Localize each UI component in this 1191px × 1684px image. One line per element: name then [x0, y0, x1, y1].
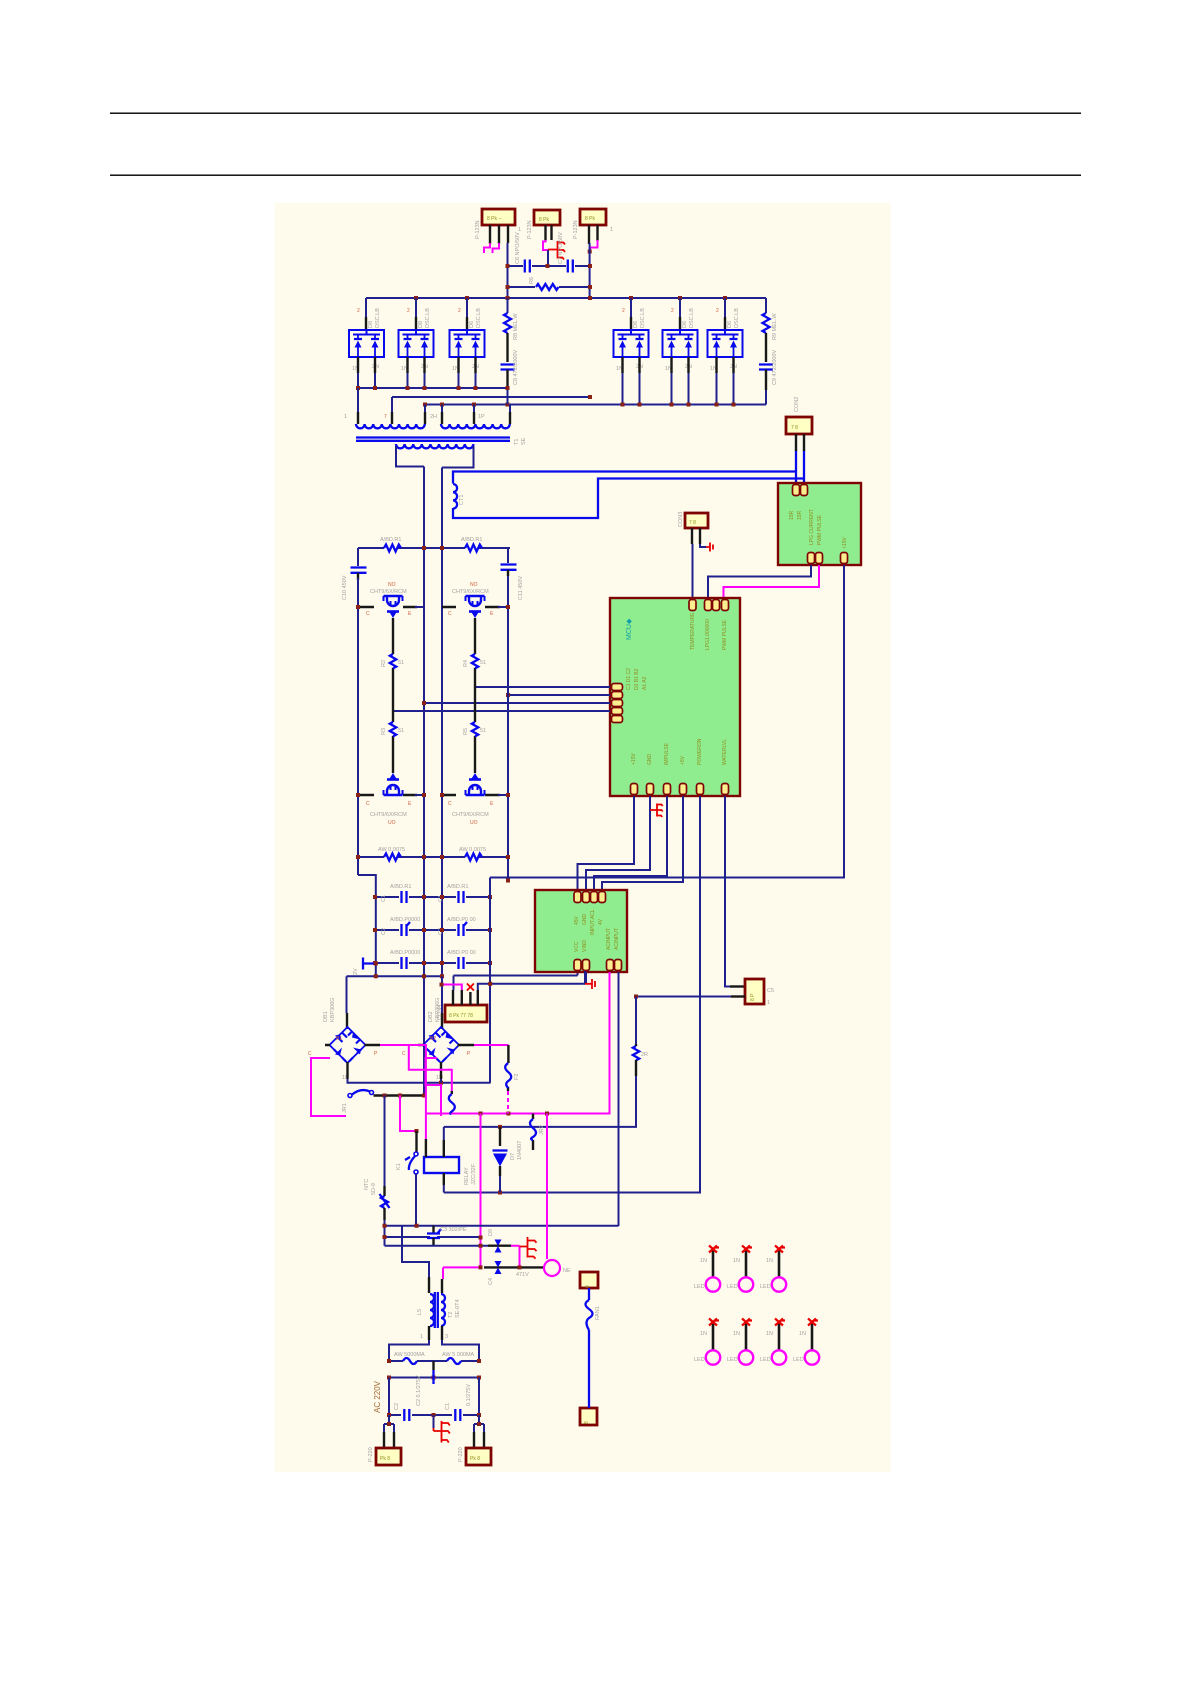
svg-text:A/BD.P0 00: A/BD.P0 00 [447, 950, 476, 956]
svg-text:2: 2 [458, 308, 461, 314]
svg-text:1: 1 [420, 1334, 423, 1340]
CT leads to driver pins [796, 450, 804, 483]
svg-text:4V: 4V [598, 918, 604, 925]
svg-text:CHT9/6X/RCM: CHT9/6X/RCM [452, 812, 489, 818]
svg-text:P-123N: P-123N [475, 220, 481, 239]
wire Q4 row [442, 794, 500, 796]
connector CON2 [786, 397, 812, 434]
svg-text:1: 1 [610, 227, 613, 233]
resistor Rs2 [465, 854, 482, 861]
wire resonant cap row 3 y963 [375, 962, 490, 964]
svg-text:D6: D6 [682, 321, 688, 328]
svg-text:UO: UO [388, 820, 396, 826]
svg-text:C1: C1 [445, 1403, 451, 1410]
connector P3 pins [589, 225, 598, 244]
svg-text:C: C [308, 1051, 312, 1057]
svg-text:L5: L5 [417, 1309, 423, 1315]
bridge rectifier B2 [423, 1027, 459, 1063]
svg-text:1P: 1P [478, 414, 485, 420]
svg-text:8: 8 [584, 1421, 590, 1424]
fuse FA1 [403, 1358, 417, 1364]
left DC rail [358, 548, 376, 976]
fan connector FC1 [580, 1272, 598, 1288]
rectifier D2 [399, 330, 434, 357]
svg-text:2: 2 [407, 308, 410, 314]
svg-text:LED: LED [694, 1284, 705, 1290]
svg-text:R4: R4 [463, 660, 469, 667]
magenta relay switch feed [400, 1096, 417, 1132]
svg-text:1: 1 [344, 414, 347, 420]
current transformer loop (bright blue) [453, 472, 804, 519]
TVS diode Z1 (bowtie) [495, 1240, 502, 1253]
rectifier bottom pins (right group) [623, 357, 734, 373]
svg-text:45V: 45V [574, 915, 580, 925]
svg-text:ACINPUT: ACINPUT [614, 928, 620, 950]
resistor Rs1 [384, 854, 401, 861]
svg-text:CHT9/6X/RCM: CHT9/6X/RCM [370, 812, 407, 818]
header rule 1 [110, 113, 1081, 114]
magenta to earth [511, 1246, 520, 1266]
svg-text:C11 450V: C11 450V [518, 576, 524, 600]
svg-text:TEMPERATURE: TEMPERATURE [690, 612, 696, 650]
B2 pin stubs [418, 1045, 474, 1079]
svg-text:1N: 1N [766, 1258, 773, 1264]
svg-text:C2: C2 [394, 1403, 400, 1410]
relay coil K1 [424, 1157, 459, 1173]
capacitor C7 [568, 260, 573, 273]
connector CON5 [745, 979, 774, 1006]
svg-text:1N4007: 1N4007 [517, 1141, 523, 1160]
svg-text:P-123N: P-123N [573, 220, 579, 239]
rectifier D6 [708, 330, 743, 357]
svg-text:PWM PULSE: PWM PULSE [722, 619, 728, 650]
magenta B1 plus down x425.9 [380, 1045, 426, 1114]
red X no-connect [467, 984, 474, 991]
svg-text:C2: C2 [381, 928, 387, 935]
svg-text:D2 B1 B2: D2 B1 B2 [634, 668, 640, 690]
capacitor Cy (x433) [432, 1226, 434, 1233]
wire relay to y1192 [443, 1185, 445, 1193]
wire row y1237 [385, 1236, 481, 1238]
wire P1 pin3 down [507, 243, 509, 298]
svg-text:C1: C1 [381, 895, 387, 902]
MCU bottom wires staircase to module [578, 796, 635, 890]
capacitor Cx1 [432, 1361, 434, 1370]
svg-text:C: C [366, 611, 370, 617]
svg-text:51: 51 [398, 660, 404, 666]
wire row y1245.7 [385, 1245, 489, 1247]
wire shunt row y857 [358, 856, 508, 858]
wire CON3 pin1 to MCU [692, 544, 694, 598]
wire Q2 row [358, 794, 417, 796]
svg-text:T1: T1 [514, 439, 520, 445]
svg-text:2V: 2V [353, 968, 359, 975]
wire B1 top feed [346, 976, 348, 1013]
power flag (red) at module pin2 [585, 979, 595, 989]
CON3 pins [692, 528, 700, 544]
svg-text:2R: 2R [641, 1052, 648, 1058]
svg-text:C3 302/PE: C3 302/PE [440, 1227, 467, 1233]
svg-text:VCC: VCC [574, 941, 580, 952]
lamp LED1 [706, 1246, 720, 1292]
fuse FA2 [447, 1358, 461, 1364]
switch JR2b (blue squiggle) [451, 1091, 453, 1094]
svg-text:7: 7 [384, 414, 387, 420]
svg-text:MCU◆: MCU◆ [626, 618, 633, 640]
relay switch lead [415, 1131, 417, 1152]
earth symbol (red) mid [520, 1237, 537, 1259]
bridge rectifier B1 [330, 1027, 366, 1063]
svg-text:8 Pk: 8 Pk [539, 217, 550, 223]
transformer T1 primary winding [356, 424, 425, 428]
connector CON3 [678, 512, 708, 528]
earth symbol (red) bottom [433, 1415, 435, 1428]
magenta B2 plus to fuse [474, 1044, 508, 1046]
svg-text:B1: B1 [336, 1036, 342, 1042]
wire X-cap row y1415 [389, 1414, 479, 1416]
capacitor Cr3 [402, 922, 411, 936]
svg-text:C6 NPO/50V: C6 NPO/50V [515, 232, 521, 264]
rectifier bottom pins (left group) [358, 357, 476, 373]
svg-text:C: C [402, 1051, 406, 1057]
svg-text:8 Pk --: 8 Pk -- [487, 216, 502, 222]
svg-text:15R: 15R [789, 510, 795, 520]
B1 pin stubs [325, 1045, 380, 1079]
svg-text:C1 D1 C2: C1 D1 C2 [626, 668, 632, 690]
fuse F2 (blue squiggle) [507, 1045, 510, 1091]
svg-text:INPUT.ACL: INPUT.ACL [590, 909, 596, 935]
svg-text:R8 MEL.W: R8 MEL.W [513, 313, 519, 340]
fuse F1 between [588, 1288, 590, 1408]
transistor Q1 [384, 596, 403, 618]
svg-text:DSC.LB: DSC.LB [734, 308, 740, 328]
svg-text:R2: R2 [381, 660, 387, 667]
svg-text:8 P: 8 P [750, 993, 756, 1001]
lamp LED2 [739, 1246, 753, 1292]
connector CN2 (AC neutral) [458, 1447, 491, 1465]
gate resistor Rg4 [472, 722, 478, 736]
svg-text:8 Pk: 8 Pk [585, 216, 596, 222]
svg-text:1N: 1N [799, 1331, 806, 1337]
svg-text:VIND: VIND [582, 940, 588, 952]
wire row y1267.4 [443, 1266, 481, 1268]
svg-text:AC 220V: AC 220V [373, 1380, 382, 1413]
svg-text:AW 0.0075: AW 0.0075 [378, 847, 405, 853]
svg-text:DSC.LB: DSC.LB [640, 308, 646, 328]
labels rectifiers [352, 308, 740, 372]
svg-text:Pk 8: Pk 8 [470, 1456, 480, 1462]
wire fuse row y1361 [389, 1360, 479, 1362]
wire secondary right leg [442, 446, 474, 976]
MCU U1 [610, 598, 740, 796]
capacitor Cr2 [459, 891, 464, 903]
transformer T1 primary taps [358, 388, 510, 412]
svg-text:P-220: P-220 [368, 1447, 374, 1462]
wire main top bus y298 [366, 297, 766, 299]
lamp LED7 [805, 1319, 819, 1365]
svg-text:2H: 2H [430, 414, 437, 420]
module ACINPUT magenta down [426, 972, 610, 1114]
svg-text:Pk 8: Pk 8 [380, 1456, 390, 1462]
svg-text:POWERON: POWERON [697, 738, 703, 765]
snubber C9 (right) [759, 365, 773, 370]
svg-text:15R: 15R [797, 510, 803, 520]
svg-text:1N: 1N [733, 1258, 740, 1264]
magenta hook B1 [311, 1058, 346, 1116]
svg-text:1N: 1N [700, 1258, 707, 1264]
svg-text:C5: C5 [767, 988, 774, 994]
MCU left wires from gates [475, 686, 610, 688]
connector P2 (2-pin) [527, 210, 560, 239]
side rails down [389, 1378, 479, 1416]
rectifier D5 [663, 330, 698, 357]
magenta row M y1113.5 [426, 1113, 610, 1115]
lamp LED5 [739, 1319, 753, 1365]
svg-text:0.1/275V: 0.1/275V [466, 1384, 472, 1406]
lamp LED6 [772, 1319, 786, 1365]
svg-text:DB2: DB2 [428, 1011, 434, 1022]
CON2 pins [796, 434, 804, 451]
magenta down to TVS x480.5 [480, 1114, 482, 1268]
wire bus C y404.5 [423, 404, 766, 406]
svg-text:JR1: JR1 [342, 1103, 348, 1113]
svg-text:C9 472/2000V: C9 472/2000V [772, 350, 778, 385]
connector P1 pins [490, 225, 508, 244]
svg-text:CT1: CT1 [459, 495, 465, 505]
svg-text:D6: D6 [727, 321, 733, 328]
svg-text:7 8: 7 8 [689, 520, 696, 526]
wire B2 top feed [441, 976, 443, 1013]
wire magenta stubs under P1 [484, 243, 499, 253]
svg-text:D7: D7 [510, 1153, 516, 1160]
svg-text:LED: LED [760, 1284, 771, 1290]
svg-text:+5V: +5V [680, 755, 686, 765]
svg-text:A/BD.R1: A/BD.R1 [390, 884, 411, 890]
svg-text:ACINPUT: ACINPUT [606, 928, 612, 950]
svg-text:7 8: 7 8 [791, 425, 798, 431]
svg-text:C: C [366, 801, 370, 807]
svg-text:D6: D6 [469, 321, 475, 328]
header rule 2 [110, 175, 1081, 176]
svg-text:KBP306G: KBP306G [330, 998, 336, 1022]
svg-text:F2: F2 [514, 1074, 520, 1080]
wire Q3 row [442, 606, 500, 608]
resistor Rd1 [384, 545, 401, 552]
svg-text:8: 8 [585, 1285, 591, 1288]
svg-text:C10 450V: C10 450V [342, 575, 348, 600]
wire resistor row y287 [508, 286, 591, 288]
magenta T2 right pin [442, 1268, 444, 1280]
CT winding [453, 484, 457, 509]
magenta B2 left hook [409, 1045, 452, 1091]
bulk capacitor CB1 [351, 568, 367, 573]
svg-text:GND: GND [582, 914, 588, 926]
svg-text:C8 472/2000V: C8 472/2000V [513, 350, 519, 385]
svg-text:IMPULSE: IMPULSE [664, 742, 670, 765]
svg-text:R5: R5 [463, 728, 469, 735]
magenta hook B2 [426, 1058, 442, 1116]
wire module pin2 down [585, 972, 587, 984]
wire row P to module pin1 [454, 972, 578, 990]
svg-text:R9 MEL.W: R9 MEL.W [772, 313, 778, 340]
svg-text:RELAY: RELAY [464, 1167, 470, 1185]
svg-text:2: 2 [671, 308, 674, 314]
connector P1 (output, 3-pin) [475, 209, 521, 239]
wire lower link y976.3 [347, 975, 443, 977]
svg-text:LED: LED [727, 1284, 738, 1290]
junction dots on bus [414, 296, 727, 300]
snubber R7 (left, on x507.5) [507, 298, 509, 313]
wire magenta under P3 [590, 240, 598, 253]
svg-text:AW 5 000MA: AW 5 000MA [442, 1352, 475, 1358]
capacitor Cx2 [404, 1409, 409, 1421]
magenta feed CON4 pin2 [442, 985, 462, 991]
svg-text:1: 1 [767, 1000, 770, 1006]
wire Q1 row [358, 606, 417, 608]
wire magenta under P2 [543, 240, 549, 250]
U2 pin2 wire magenta to MCU [724, 565, 820, 598]
svg-text:C4: C4 [488, 1278, 494, 1285]
svg-text:CHT9/6X/RCM: CHT9/6X/RCM [452, 589, 489, 595]
wire bus drops to rectifier packages [366, 298, 725, 317]
svg-text:A/BD.R1: A/BD.R1 [447, 884, 468, 890]
svg-text:JR2: JR2 [539, 1125, 545, 1135]
svg-text:A/BD.P0 00: A/BD.P0 00 [447, 917, 476, 923]
svg-text:LED: LED [793, 1357, 804, 1363]
wire secondary left leg [396, 446, 424, 1096]
transistor Q4 [466, 773, 485, 795]
svg-text:CON4: CON4 [437, 1005, 443, 1020]
svg-text:CON2: CON2 [794, 397, 800, 412]
NTC thermistor [384, 1096, 386, 1187]
power module U3 [535, 890, 627, 972]
svg-text:2: 2 [716, 308, 719, 314]
wire resonant cap row 2 y930 [375, 929, 490, 931]
svg-text:C: C [448, 611, 452, 617]
ground flag (red) at MCU pin2 [650, 804, 663, 818]
snubber R9 (right, on x766) [765, 298, 767, 313]
svg-text:T2: T2 [448, 1312, 454, 1318]
wire T2 left pin up [402, 1226, 429, 1277]
IGBT driver IC U2 [778, 483, 861, 565]
gate column Q3/Q4 [474, 618, 476, 773]
neon lamp NE1 [544, 1260, 560, 1276]
resistor R10 [633, 1046, 639, 1060]
svg-text:51: 51 [398, 728, 404, 734]
svg-text:PWM PULSE: PWM PULSE [817, 514, 823, 545]
module ACINPUT2 down [618, 972, 620, 1226]
right DC rail [490, 548, 508, 878]
capacitor Cr4 [459, 922, 468, 936]
svg-text:K1: K1 [396, 1163, 402, 1170]
transistor Q2 [384, 773, 403, 795]
gate column Q1/Q2 [392, 618, 394, 773]
svg-text:51: 51 [480, 728, 486, 734]
svg-text:C7 NPO/50V: C7 NPO/50V [558, 232, 564, 264]
svg-text:AW 5000MA: AW 5000MA [394, 1352, 425, 1358]
power flag (red) at CON3 [706, 543, 713, 552]
flyback diode D7 [499, 1127, 501, 1146]
wire cap row y266 [508, 265, 591, 267]
transformer T1 secondary winding [396, 444, 473, 448]
connector P3 (2-pin) [573, 209, 613, 239]
svg-text:1N: 1N [733, 1331, 740, 1337]
svg-text:1N: 1N [700, 1331, 707, 1337]
MCU pin5 wire down [444, 796, 700, 1193]
net stub (blue) left of row3 [363, 958, 376, 970]
svg-text:A/BD.R1: A/BD.R1 [461, 537, 482, 543]
svg-text:D9: D9 [488, 1229, 494, 1236]
svg-text:D6: D6 [633, 321, 639, 328]
svg-text:LPG CURRENT: LPG CURRENT [809, 509, 815, 545]
capacitor Cr5 [402, 957, 407, 969]
svg-text:SE-0T4: SE-0T4 [455, 1299, 461, 1318]
TVS diode Z2 (bowtie) [495, 1261, 502, 1274]
svg-text:A/BD.R1: A/BD.R1 [380, 537, 401, 543]
svg-text:NTC: NTC [364, 1179, 370, 1190]
svg-text:R6: R6 [529, 277, 535, 284]
wire to CN1 [384, 1415, 394, 1432]
wire CON3 pin2 jog [700, 544, 706, 547]
svg-text:FAN1: FAN1 [595, 1306, 601, 1320]
transistor Q3 [466, 596, 485, 618]
svg-text:51: 51 [480, 660, 486, 666]
svg-text:471V: 471V [516, 1272, 529, 1278]
wire x636 down with resistor [635, 997, 637, 1045]
gate resistor Rg3 [472, 654, 478, 668]
svg-text:CHT9/6X/RCM: CHT9/6X/RCM [370, 589, 407, 595]
svg-text:D8: D8 [368, 321, 374, 328]
U2 pin1 wire down-left to MCU [708, 565, 811, 598]
wire CON4 pin4 to row Q [478, 971, 585, 990]
wire bus A y388 (left rectifier output) [358, 387, 508, 389]
svg-text:UO: UO [470, 820, 478, 826]
svg-text:AW 0.0075: AW 0.0075 [459, 847, 486, 853]
relay coil leads [425, 1114, 427, 1140]
wire bus B y397 [392, 396, 590, 398]
switch JR2 (blue squiggle) [532, 1114, 534, 1151]
svg-text:B2: B2 [430, 1036, 436, 1042]
svg-text:WATERLVL: WATERLVL [722, 739, 728, 765]
svg-text:+15V: +15V [842, 537, 848, 549]
svg-text:C: C [448, 801, 452, 807]
svg-text:1: 1 [518, 227, 521, 233]
magenta dash link [507, 1091, 509, 1114]
svg-text:LED: LED [694, 1357, 705, 1363]
capacitor Cr6 [459, 957, 464, 969]
earth symbol (red) near P2 [548, 241, 565, 260]
wire rail-top row y548 with damper resistors [358, 547, 510, 549]
resistor R6 [536, 284, 559, 290]
wire row y1377.5 [389, 1377, 479, 1379]
lamp LED3 [772, 1246, 786, 1292]
svg-text:DSC.LB: DSC.LB [425, 308, 431, 328]
svg-text:2: 2 [357, 308, 360, 314]
transformer T2 [417, 1292, 461, 1328]
svg-text:A1 A2: A1 A2 [642, 676, 648, 690]
gate resistor Rg1 [390, 654, 396, 668]
connector CN1 (AC line) [368, 1447, 401, 1465]
wire bridge minus row y1082.7 [348, 878, 491, 1083]
svg-text:LED: LED [760, 1357, 771, 1363]
MCU pin6 wire down [725, 796, 730, 987]
CON5 pin2 wire [636, 996, 731, 998]
snubber C8 (left) [501, 365, 515, 370]
gate resistor Rg2 [390, 722, 396, 736]
svg-text:8 Pk 77 78: 8 Pk 77 78 [449, 1013, 473, 1019]
magenta drop to neon [546, 1114, 548, 1260]
svg-text:DSC.LB: DSC.LB [689, 308, 695, 328]
